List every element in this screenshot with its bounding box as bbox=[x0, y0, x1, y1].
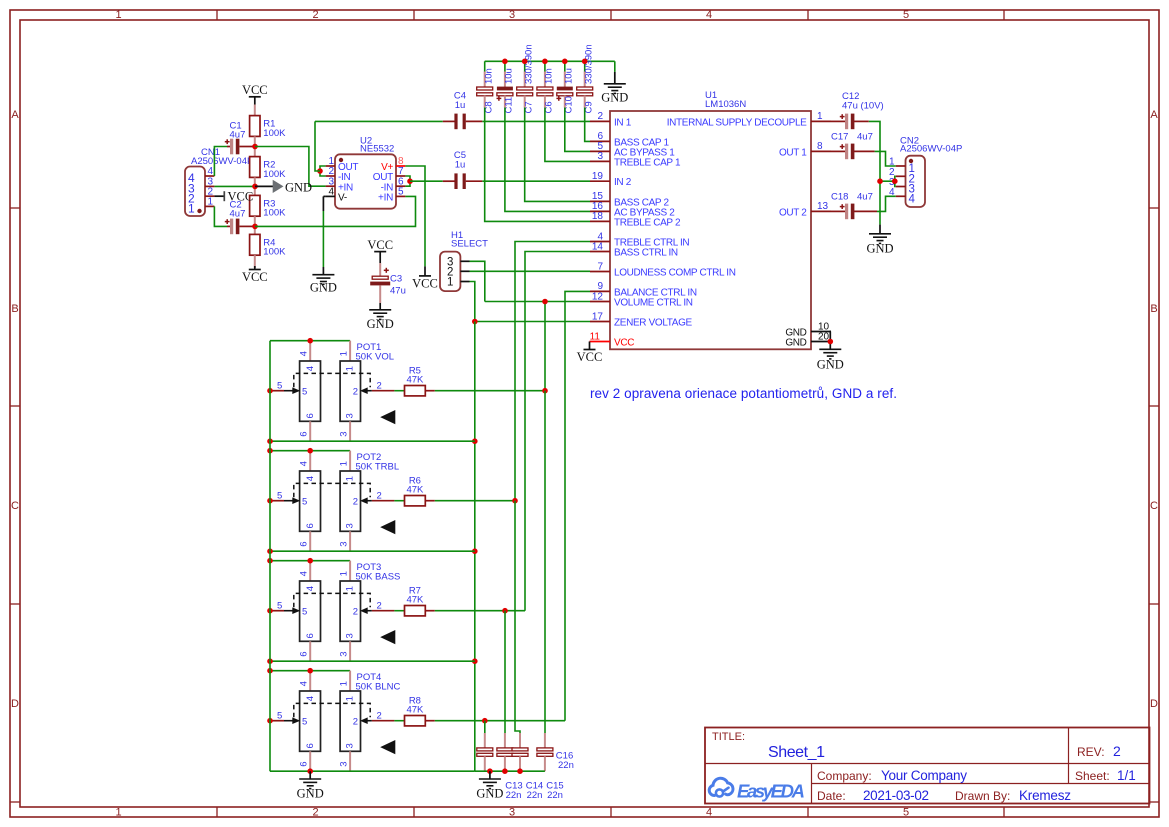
svg-text:V-: V- bbox=[338, 193, 347, 204]
svg-text:GND: GND bbox=[866, 242, 893, 256]
resistor R8 leads bbox=[425, 720, 435, 722]
svg-text:6: 6 bbox=[299, 652, 310, 657]
ground below U2 bbox=[312, 274, 334, 276]
svg-text:C18: C18 bbox=[831, 192, 848, 203]
POT2 node pin4 bus bbox=[307, 448, 313, 454]
svg-text:D: D bbox=[11, 698, 19, 710]
node junction on R5 row bbox=[542, 388, 548, 394]
POT1 right gang body bbox=[340, 361, 360, 421]
svg-text:3: 3 bbox=[338, 542, 349, 547]
U2 pin 3 +IN (left) bbox=[326, 185, 335, 187]
svg-text:4: 4 bbox=[909, 193, 916, 205]
svg-text:A: A bbox=[1150, 109, 1158, 121]
svg-text:6: 6 bbox=[299, 542, 310, 547]
svg-text:18: 18 bbox=[592, 211, 604, 222]
wire C1 node to U2 +IN bbox=[255, 147, 326, 187]
svg-text:1: 1 bbox=[207, 197, 213, 208]
svg-text:Kremesz: Kremesz bbox=[1019, 788, 1071, 803]
POT3 node rail wiper bbox=[267, 608, 273, 614]
svg-text:50K TRBL: 50K TRBL bbox=[356, 461, 400, 472]
frame column tick bbox=[610, 10, 612, 20]
wire U2 node to C4 bbox=[315, 120, 443, 122]
power flag VCC above R1 bbox=[249, 96, 261, 98]
POT1 node pin4 bus bbox=[307, 338, 313, 344]
resistor R2 lead top bbox=[254, 147, 256, 157]
svg-text:Date:: Date: bbox=[817, 789, 846, 803]
svg-text:19: 19 bbox=[592, 171, 604, 182]
svg-text:B: B bbox=[1150, 303, 1157, 315]
POT3 node pin4 bus bbox=[307, 558, 313, 564]
node junction zener rail - pot bus bbox=[472, 438, 478, 444]
svg-text:2: 2 bbox=[597, 111, 603, 122]
node junction CN2 bracket bbox=[892, 178, 898, 184]
U2 pin 4 V- (left) bbox=[326, 195, 335, 197]
POT1 pin 3 lead bbox=[349, 421, 351, 441]
svg-text:A: A bbox=[11, 109, 19, 121]
U2 pin 6 -IN (right) bbox=[396, 185, 405, 187]
node junction GND pin20 bbox=[828, 339, 834, 345]
svg-text:330/390n: 330/390n bbox=[583, 44, 594, 84]
svg-text:10u: 10u bbox=[564, 68, 575, 84]
svg-text:3: 3 bbox=[597, 151, 603, 162]
POT2 pin 5 wiper arrow bbox=[270, 500, 284, 502]
POT3 bottom bus bbox=[270, 660, 475, 662]
svg-text:1/1: 1/1 bbox=[1117, 768, 1136, 783]
CN1 pin 2 bbox=[205, 195, 214, 197]
svg-text:2021-03-02: 2021-03-02 bbox=[863, 788, 929, 803]
resistor R7 leads bbox=[425, 610, 435, 612]
svg-text:3: 3 bbox=[509, 9, 515, 21]
CN2 pin 2 bbox=[896, 175, 906, 177]
ground at bottom caps bbox=[489, 771, 491, 779]
potentiometer POT3 50K BASS bbox=[270, 560, 350, 562]
svg-text:2: 2 bbox=[353, 497, 358, 508]
svg-text:2: 2 bbox=[377, 711, 382, 722]
svg-text:GND: GND bbox=[310, 281, 337, 295]
svg-text:2: 2 bbox=[353, 387, 358, 398]
POT3 left gang body bbox=[300, 581, 321, 641]
svg-text:2: 2 bbox=[312, 9, 318, 21]
wire U2 pins7-6 feedback bracket bbox=[405, 176, 410, 186]
power flag VCC below U2 pin8 bbox=[424, 266, 426, 276]
svg-text:3: 3 bbox=[338, 652, 349, 657]
wire balance net down to C13 bbox=[484, 721, 486, 733]
wire treble ctrl vertical bbox=[515, 242, 590, 501]
U1 pin 5 AC BYPASS 1 bbox=[590, 150, 610, 152]
svg-text:GND: GND bbox=[476, 787, 503, 801]
node junction bottom ground bus bbox=[502, 768, 508, 774]
wire volume row to U1 pin12 bbox=[485, 301, 590, 303]
H1 pin 3 bbox=[460, 260, 469, 262]
connector CN1 body bbox=[185, 167, 205, 217]
POT1 bottom bus bbox=[270, 440, 475, 442]
svg-text:12: 12 bbox=[592, 291, 604, 302]
svg-text:TREBLE CAP 1: TREBLE CAP 1 bbox=[614, 157, 681, 168]
svg-text:IN 2: IN 2 bbox=[614, 177, 632, 188]
POT1 gang coupling dashed link bbox=[294, 373, 370, 387]
node junction R2-R3-GND bbox=[252, 184, 258, 190]
wire H1 pin1 down to zener rail bbox=[470, 282, 475, 322]
svg-text:4: 4 bbox=[706, 9, 712, 21]
ground below pots bbox=[309, 771, 311, 779]
svg-text:SELECT: SELECT bbox=[451, 239, 488, 250]
U2 pin 5 +IN (right) bbox=[396, 195, 405, 197]
svg-text:C: C bbox=[1150, 500, 1158, 512]
POT4 left gang body bbox=[300, 691, 321, 751]
POT3 node rail bottom bus bbox=[267, 658, 273, 664]
capacitor C7 330/390n bbox=[524, 61, 526, 71]
resistor R4 bbox=[250, 234, 260, 255]
U2 pin-1 marker dot bbox=[339, 158, 343, 162]
wire C12 to ground rail bbox=[869, 121, 880, 224]
svg-text:Sheet_1: Sheet_1 bbox=[768, 744, 825, 761]
POT3 pin 6 lead bbox=[309, 641, 311, 661]
wire VCC to C3 bbox=[379, 252, 381, 263]
svg-text:4: 4 bbox=[299, 571, 310, 576]
svg-text:1: 1 bbox=[115, 807, 121, 819]
svg-text:1u: 1u bbox=[455, 160, 466, 171]
wire bass net down to C14 bbox=[504, 611, 506, 733]
frame column tick bbox=[1003, 10, 1005, 20]
svg-text:4u7: 4u7 bbox=[857, 132, 873, 143]
H1 pin 1 bbox=[460, 281, 469, 283]
svg-text:VCC: VCC bbox=[242, 270, 268, 284]
wire bass ctrl vertical bbox=[525, 252, 590, 611]
svg-text:OUT 2: OUT 2 bbox=[779, 207, 807, 218]
CN1 pin-1 marker dot bbox=[197, 209, 201, 213]
svg-text:5: 5 bbox=[277, 381, 282, 392]
svg-text:1: 1 bbox=[817, 111, 823, 122]
POT2 gang coupling dashed link bbox=[294, 483, 370, 497]
U1 pin 19 IN 2 bbox=[590, 180, 610, 182]
POT2 node rail wiper bbox=[267, 498, 273, 504]
frame column tick bbox=[413, 10, 415, 20]
POT4 node rail wiper bbox=[267, 718, 273, 724]
EasyEDA logo cloud bbox=[709, 778, 733, 795]
resistor R1 lead top bbox=[254, 105, 256, 116]
svg-text:22n: 22n bbox=[506, 790, 522, 801]
wire C18 to CN2 pin4 bbox=[877, 196, 896, 211]
POT1 pin 5 wiper arrow bbox=[270, 390, 284, 392]
U1 pin 16 AC BYPASS 2 bbox=[590, 210, 610, 212]
POT2 direction triangle bbox=[380, 520, 395, 534]
svg-text:rev 2 opravena orienace potant: rev 2 opravena orienace potantiometrů, G… bbox=[590, 386, 897, 401]
svg-text:IN 1: IN 1 bbox=[614, 117, 632, 128]
POT1 left gang body bbox=[300, 361, 321, 421]
node junction zener rail - pot bus bbox=[472, 658, 478, 664]
frame row tick bbox=[10, 603, 20, 605]
resistor R4 lead bottom bbox=[254, 255, 256, 268]
wire C4 to U1 IN1 bbox=[482, 120, 590, 122]
wire balance ctrl vertical bbox=[565, 291, 590, 720]
power flag VCC below U1 pin11 bbox=[584, 349, 596, 351]
svg-text:4: 4 bbox=[305, 476, 316, 481]
svg-text:4: 4 bbox=[207, 166, 213, 177]
U1 pin 11 VCC bbox=[590, 341, 610, 343]
U1 pin 13 OUT 2 bbox=[811, 210, 831, 212]
wire pot wiper to R6 bbox=[394, 500, 404, 502]
svg-text:1: 1 bbox=[345, 476, 356, 481]
wire pot wiper to R5 bbox=[394, 390, 404, 392]
node junction U2 out-feedback right bbox=[407, 178, 413, 184]
wire treble net down to C15 bbox=[515, 501, 520, 733]
wire C3 to ground bbox=[379, 285, 381, 303]
U1 pin 12 VOLUME CTRL IN bbox=[590, 301, 610, 303]
capacitor C16 22n bbox=[544, 733, 546, 748]
svg-text:50K VOL: 50K VOL bbox=[356, 351, 395, 362]
POT4 node pin4 bus bbox=[307, 668, 313, 674]
node junction bottom ground bus bbox=[517, 768, 523, 774]
svg-text:2: 2 bbox=[312, 807, 318, 819]
capacitor C14 22n bbox=[504, 733, 506, 748]
svg-text:VCC: VCC bbox=[367, 238, 393, 252]
wire C2 node to U2 pin5 bbox=[255, 196, 416, 226]
svg-text:5: 5 bbox=[302, 497, 307, 508]
node junction on R8 row bbox=[482, 718, 488, 724]
capacitor C10 10u bbox=[564, 61, 566, 71]
svg-text:3: 3 bbox=[345, 523, 356, 528]
svg-text:1: 1 bbox=[115, 9, 121, 21]
POT1 pin 2 wiper arrow bbox=[372, 390, 395, 392]
CN2 pin 4 bbox=[896, 195, 906, 197]
resistor R3 lead bottom bbox=[254, 216, 256, 226]
svg-text:22n: 22n bbox=[527, 790, 543, 801]
frame row tick bbox=[10, 801, 20, 803]
wire R5 to control column bbox=[435, 390, 545, 392]
svg-text:1: 1 bbox=[338, 461, 349, 466]
POT4 direction triangle bbox=[380, 740, 395, 754]
power flag VCC (sideways at CN1) bbox=[223, 191, 225, 201]
U1 pin 10 GND bbox=[811, 331, 831, 333]
U1 pin 8 OUT 1 bbox=[811, 150, 831, 152]
wire zener row to U1 pin17 bbox=[475, 321, 590, 323]
resistor R1 lead bottom / node bbox=[254, 136, 256, 146]
resistor R5 leads bbox=[425, 390, 435, 392]
potentiometer POT1 50K VOL bbox=[270, 340, 350, 342]
svg-text:GND: GND bbox=[285, 181, 312, 195]
U1 pin 14 BASS CTRL IN bbox=[590, 251, 610, 253]
wire U2 pins1-2 feedback bracket bbox=[320, 166, 326, 176]
capacitor C15 22n bbox=[519, 733, 521, 748]
resistor R3 lead top bbox=[254, 186, 256, 195]
svg-text:100K: 100K bbox=[263, 128, 286, 139]
frame column tick bbox=[216, 10, 218, 20]
svg-text:1: 1 bbox=[188, 202, 195, 216]
svg-text:13: 13 bbox=[817, 201, 829, 212]
wire C6 to U1 row bbox=[545, 108, 590, 162]
wire bus to ground bbox=[614, 61, 616, 72]
node junction volume row bbox=[542, 299, 548, 305]
POT1 pin 6 lead bbox=[309, 421, 311, 441]
svg-text:Sheet:: Sheet: bbox=[1075, 769, 1110, 783]
svg-text:4: 4 bbox=[706, 807, 712, 819]
svg-text:A2506WV-04P: A2506WV-04P bbox=[191, 156, 253, 167]
svg-text:Company:: Company: bbox=[817, 769, 872, 783]
svg-text:2: 2 bbox=[353, 717, 358, 728]
svg-text:4: 4 bbox=[299, 681, 310, 686]
svg-text:LOUDNESS COMP CTRL IN: LOUDNESS COMP CTRL IN bbox=[614, 268, 736, 279]
ground below CN2 bbox=[879, 225, 881, 234]
svg-text:4: 4 bbox=[305, 586, 316, 591]
svg-text:C: C bbox=[11, 500, 19, 512]
node junction C1-R1-R2 bbox=[252, 144, 258, 150]
svg-text:5: 5 bbox=[302, 387, 307, 398]
resistor R3 bbox=[250, 195, 260, 216]
svg-text:6: 6 bbox=[305, 633, 316, 638]
POT2 left gang body bbox=[300, 471, 321, 531]
frame row tick bbox=[10, 207, 20, 209]
CN2 pin 1 bbox=[896, 165, 906, 167]
wire H1 pin3 to volume net bbox=[470, 261, 485, 301]
wire C9 to U1 row bbox=[585, 108, 590, 142]
svg-text:EasyEDA: EasyEDA bbox=[737, 781, 805, 802]
POT4 bottom bus bbox=[270, 770, 475, 772]
wire zener rail down bbox=[474, 322, 476, 772]
U1 pin 15 BASS CAP 2 bbox=[590, 200, 610, 202]
resistor R8 bbox=[405, 716, 426, 726]
wire CN2 pins2-3 bracket to ground rail bbox=[894, 176, 897, 186]
svg-text:1: 1 bbox=[345, 366, 356, 371]
svg-text:TREBLE CAP 2: TREBLE CAP 2 bbox=[614, 217, 681, 228]
svg-text:7: 7 bbox=[597, 261, 603, 272]
node junction bottom ground bus bbox=[487, 768, 493, 774]
wire CN1 pin2 to VCC flag bbox=[214, 195, 224, 197]
svg-text:ZENER VOLTAGE: ZENER VOLTAGE bbox=[614, 318, 693, 329]
bus junction node bbox=[582, 59, 588, 65]
resistor R2 bbox=[250, 157, 260, 178]
POT3 direction triangle bbox=[380, 630, 395, 644]
svg-text:2: 2 bbox=[377, 381, 382, 392]
POT2 pin 6 lead bbox=[309, 531, 311, 551]
svg-text:3: 3 bbox=[345, 413, 356, 418]
resistor R4 lead top bbox=[254, 226, 256, 234]
svg-text:10n: 10n bbox=[483, 68, 494, 84]
wire C7 to U1 row bbox=[525, 108, 590, 202]
svg-text:VCC: VCC bbox=[577, 350, 603, 364]
resistor R6 leads bbox=[425, 500, 435, 502]
svg-text:100K: 100K bbox=[263, 208, 286, 219]
POT1 node rail bottom bus bbox=[267, 438, 273, 444]
wire C10 to U1 row bbox=[565, 108, 590, 152]
svg-text:4: 4 bbox=[305, 696, 316, 701]
title block outline bbox=[705, 728, 1150, 804]
capacitor C3 47u bbox=[372, 276, 388, 279]
capacitor C6 10n bbox=[544, 61, 546, 71]
power flag VCC below R4 bbox=[254, 266, 256, 270]
svg-text:330/390n: 330/390n bbox=[523, 44, 534, 84]
CN1 pin 4 bbox=[205, 175, 214, 177]
wire VCC to R1 bbox=[254, 97, 256, 105]
H1 pin 2 bbox=[460, 270, 469, 272]
svg-text:2: 2 bbox=[353, 607, 358, 618]
POT2 bottom bus bbox=[270, 550, 475, 552]
svg-text:OUT 1: OUT 1 bbox=[779, 147, 807, 158]
CN2 pin 3 bbox=[896, 186, 906, 188]
svg-text:47K: 47K bbox=[406, 375, 424, 386]
op-amp U2 body bbox=[335, 154, 396, 208]
wire CN1 pin4 to C1 bbox=[214, 147, 227, 177]
svg-text:LM1036N: LM1036N bbox=[705, 99, 746, 110]
POT2 node rail top bus bbox=[267, 448, 273, 454]
svg-text:4: 4 bbox=[299, 351, 310, 356]
svg-text:5: 5 bbox=[302, 607, 307, 618]
svg-text:3: 3 bbox=[509, 807, 515, 819]
POT2 pin 2 wiper arrow bbox=[372, 500, 395, 502]
U1 pin 1 INTERNAL SUPPLY DECOUPLE bbox=[811, 120, 831, 122]
svg-text:2: 2 bbox=[377, 491, 382, 502]
svg-text:4: 4 bbox=[328, 187, 334, 198]
svg-text:100K: 100K bbox=[263, 247, 286, 258]
wire volume ctrl vertical bbox=[544, 302, 546, 391]
svg-text:Drawn By:: Drawn By: bbox=[955, 789, 1010, 803]
svg-text:C17: C17 bbox=[831, 132, 848, 143]
POT3 pin 2 wiper arrow bbox=[372, 610, 395, 612]
svg-text:47K: 47K bbox=[406, 485, 424, 496]
U1 pin 3 TREBLE CAP 1 bbox=[590, 160, 610, 162]
node junction on R6 row bbox=[512, 498, 518, 504]
potentiometer POT2 50K TRBL bbox=[270, 450, 350, 452]
POT1 direction triangle bbox=[380, 410, 395, 424]
svg-text:1: 1 bbox=[447, 277, 453, 289]
U2 pin 7 OUT (right) bbox=[396, 175, 405, 177]
POT4 pin 3 lead bbox=[349, 751, 351, 771]
title block dividers bbox=[705, 763, 1150, 765]
wire pot wiper to R7 bbox=[394, 610, 404, 612]
svg-text:REV:: REV: bbox=[1077, 745, 1105, 759]
svg-text:Your Company: Your Company bbox=[881, 768, 967, 783]
svg-text:4: 4 bbox=[299, 461, 310, 466]
svg-text:4u7: 4u7 bbox=[857, 192, 873, 203]
node junction C2-R3-R4 bbox=[252, 224, 258, 230]
svg-text:GND: GND bbox=[601, 91, 628, 105]
ground at top bus bbox=[604, 83, 626, 85]
U1 pin 7 LOUDNESS COMP CTRL IN bbox=[590, 271, 610, 273]
capacitor C8 10n bbox=[484, 61, 486, 71]
capacitor C13 22n bbox=[484, 733, 486, 748]
POT4 pin 6 lead bbox=[309, 751, 311, 771]
bus junction node bbox=[502, 59, 508, 65]
frame column tick bbox=[807, 10, 809, 20]
POT3 gang coupling dashed link bbox=[294, 593, 370, 607]
connector CN2 body bbox=[906, 156, 926, 207]
svg-text:1: 1 bbox=[338, 681, 349, 686]
svg-text:6: 6 bbox=[305, 523, 316, 528]
POT4 node rail top bus bbox=[267, 668, 273, 674]
node junction zener rail - pot bus bbox=[472, 548, 478, 554]
svg-text:INTERNAL SUPPLY DECOUPLE: INTERNAL SUPPLY DECOUPLE bbox=[667, 117, 807, 128]
node junction on R7 row bbox=[502, 608, 508, 614]
wire R8 to control column bbox=[435, 720, 565, 722]
ground arrow flag GND bbox=[255, 185, 273, 187]
svg-text:50K BASS: 50K BASS bbox=[356, 571, 401, 582]
potentiometer POT4 50K BLNC bbox=[270, 670, 350, 672]
resistor R2 lead bottom bbox=[254, 177, 256, 186]
svg-text:GND: GND bbox=[367, 317, 394, 331]
svg-text:3: 3 bbox=[345, 743, 356, 748]
svg-text:2: 2 bbox=[377, 601, 382, 612]
POT2 node rail bottom bus bbox=[267, 548, 273, 554]
wire U2 pin8 V+ to VCC flag bbox=[405, 166, 425, 266]
svg-text:47u: 47u bbox=[390, 286, 406, 297]
left rail wire bbox=[269, 341, 271, 772]
wire C8 to U1 row bbox=[485, 108, 590, 222]
POT4 pin 2 wiper arrow bbox=[372, 720, 395, 722]
svg-text:6: 6 bbox=[305, 413, 316, 418]
svg-text:VCC: VCC bbox=[242, 83, 268, 97]
U2 pin 2 -IN (left) bbox=[326, 175, 335, 177]
wire IN1 node down to U2 bbox=[315, 121, 320, 171]
svg-text:5: 5 bbox=[398, 187, 404, 198]
